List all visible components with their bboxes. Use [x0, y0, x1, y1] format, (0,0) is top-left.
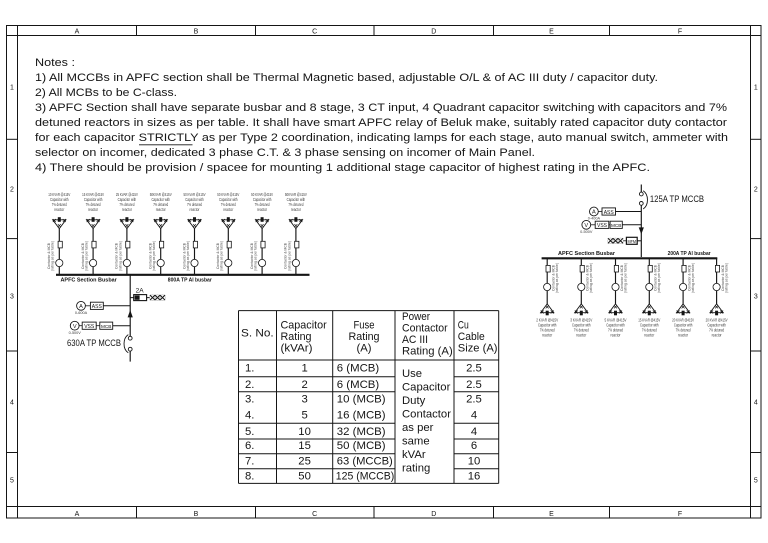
svg-text:3: 3	[754, 294, 758, 301]
svg-text:Rating (A): Rating (A)	[402, 345, 453, 357]
svg-text:10: 10	[468, 455, 481, 467]
svg-text:reactor: reactor	[542, 332, 552, 337]
svg-text:(rating as per table): (rating as per table)	[186, 241, 190, 271]
svg-text:(rating as per table): (rating as per table)	[118, 241, 122, 271]
svg-text:2.5: 2.5	[466, 379, 482, 391]
svg-text:1: 1	[754, 85, 758, 92]
svg-text:D: D	[431, 28, 436, 35]
svg-text:Cable: Cable	[458, 331, 485, 343]
svg-text:V: V	[584, 223, 588, 229]
svg-text:as per: as per	[402, 422, 434, 434]
svg-text:C: C	[312, 511, 317, 518]
svg-text:reactor: reactor	[712, 332, 722, 337]
svg-text:(kVAr): (kVAr)	[281, 343, 313, 355]
svg-text:reactor: reactor	[88, 207, 98, 212]
svg-text:C: C	[312, 28, 317, 35]
svg-text:A: A	[75, 28, 80, 35]
svg-text:(rating as per table): (rating as per table)	[589, 263, 593, 293]
svg-text:Duty: Duty	[402, 395, 426, 407]
svg-text:Contactor: Contactor	[402, 408, 451, 420]
svg-text:2A: 2A	[136, 287, 145, 294]
svg-text:50: 50	[298, 471, 311, 483]
svg-text:(rating as per table): (rating as per table)	[623, 263, 627, 293]
svg-text:1.: 1.	[245, 362, 254, 374]
svg-text:800A TP Al busbar: 800A TP Al busbar	[168, 278, 213, 284]
svg-text:detuned reactors in sizes as p: detuned reactors in sizes as per table. …	[35, 117, 727, 129]
svg-text:2: 2	[301, 379, 307, 391]
svg-text:5: 5	[754, 478, 758, 485]
svg-text:(rating as per table): (rating as per table)	[220, 241, 224, 271]
svg-text:Cu: Cu	[458, 319, 469, 331]
svg-text:(rating as per table): (rating as per table)	[691, 263, 695, 293]
svg-text:reactor: reactor	[678, 332, 688, 337]
svg-text:VSS: VSS	[597, 223, 607, 229]
svg-text:(rating as per table): (rating as per table)	[555, 263, 559, 293]
svg-text:(A): (A)	[357, 343, 372, 355]
svg-text:6 (MCB): 6 (MCB)	[337, 362, 380, 374]
svg-text:Use: Use	[402, 368, 422, 380]
svg-text:reactor: reactor	[611, 332, 621, 337]
svg-text:reactor: reactor	[257, 207, 267, 212]
svg-text:ASS: ASS	[92, 304, 102, 310]
svg-text:E: E	[549, 28, 554, 35]
svg-text:reactor: reactor	[54, 207, 64, 212]
svg-text:2: 2	[10, 187, 14, 194]
svg-text:reactor: reactor	[122, 207, 132, 212]
svg-text:F: F	[678, 28, 682, 35]
svg-text:63 (MCCB): 63 (MCCB)	[337, 455, 393, 467]
svg-text:VSS: VSS	[84, 324, 94, 330]
svg-text:2) All MCBs to be C-class.: 2) All MCBs to be C-class.	[35, 87, 177, 99]
svg-text:reactor: reactor	[223, 207, 233, 212]
svg-text:reactor: reactor	[576, 332, 586, 337]
svg-text:0-400A: 0-400A	[588, 217, 601, 221]
svg-text:4: 4	[471, 410, 477, 422]
svg-text:1: 1	[301, 362, 307, 374]
svg-text:2: 2	[754, 187, 758, 194]
svg-text:16: 16	[468, 471, 481, 483]
svg-text:125A TP MCCB: 125A TP MCCB	[650, 194, 704, 205]
svg-text:same: same	[402, 435, 430, 447]
svg-text:15: 15	[298, 440, 311, 452]
svg-text:6 (MCB): 6 (MCB)	[337, 379, 380, 391]
svg-text:A: A	[75, 511, 80, 518]
svg-text:(rating as per table): (rating as per table)	[725, 263, 729, 293]
svg-text:(rating as per table): (rating as per table)	[254, 241, 258, 271]
svg-text:1: 1	[10, 85, 14, 92]
svg-text:(rating as per table): (rating as per table)	[152, 241, 156, 271]
svg-text:Contactor: Contactor	[402, 323, 448, 335]
svg-text:10: 10	[298, 426, 311, 438]
svg-text:(rating as per table): (rating as per table)	[657, 263, 661, 293]
svg-text:AC III: AC III	[402, 334, 428, 346]
svg-text:5.: 5.	[245, 426, 254, 438]
svg-text:Size (A): Size (A)	[458, 343, 498, 355]
svg-text:3: 3	[10, 294, 14, 301]
svg-text:25: 25	[298, 455, 311, 467]
svg-text:Capacitor: Capacitor	[281, 319, 327, 331]
svg-text:APFC Section Busbar: APFC Section Busbar	[61, 278, 118, 284]
svg-text:reactor: reactor	[291, 207, 301, 212]
svg-text:2.: 2.	[245, 379, 254, 391]
svg-text:for each capacitor STRICTLY as: for each capacitor STRICTLY as per Type …	[35, 132, 728, 144]
svg-text:E: E	[549, 511, 554, 518]
svg-text:5: 5	[10, 478, 14, 485]
svg-text:MCB: MCB	[101, 324, 112, 330]
svg-text:reactor: reactor	[644, 332, 654, 337]
svg-text:Rating: Rating	[349, 331, 380, 343]
svg-text:4) There should be provision /: 4) There should be provision / spacee fo…	[35, 162, 650, 174]
svg-text:(rating as per table): (rating as per table)	[51, 241, 55, 271]
svg-text:10 (MCB): 10 (MCB)	[337, 394, 386, 406]
svg-text:Power: Power	[402, 311, 430, 323]
svg-text:16 (MCB): 16 (MCB)	[337, 410, 386, 422]
svg-text:3: 3	[301, 394, 307, 406]
svg-text:50 (MCB): 50 (MCB)	[337, 440, 386, 452]
svg-text:7.: 7.	[245, 455, 254, 467]
svg-text:B: B	[194, 28, 199, 35]
svg-text:rating: rating	[402, 462, 430, 474]
svg-text:A: A	[79, 304, 83, 310]
svg-text:Capacitor: Capacitor	[402, 381, 451, 393]
svg-text:32 (MCB): 32 (MCB)	[337, 426, 386, 438]
svg-text:0-500V: 0-500V	[580, 230, 593, 234]
svg-text:APFC Section Busbar: APFC Section Busbar	[558, 251, 616, 257]
svg-text:8.: 8.	[245, 471, 254, 483]
svg-text:5: 5	[301, 410, 307, 422]
svg-text:kVAr: kVAr	[402, 449, 426, 461]
svg-text:ASS: ASS	[604, 210, 614, 216]
svg-text:630A TP MCCB: 630A TP MCCB	[67, 338, 121, 349]
svg-text:MFM: MFM	[628, 239, 637, 244]
svg-text:6.: 6.	[245, 440, 254, 452]
svg-text:4.: 4.	[245, 410, 254, 422]
svg-text:3) APFC Section shall have sep: 3) APFC Section shall have separate busb…	[35, 102, 727, 114]
svg-text:S. No.: S. No.	[241, 327, 274, 339]
svg-text:2.5: 2.5	[466, 362, 482, 374]
svg-text:4: 4	[10, 400, 14, 407]
svg-text:4: 4	[471, 426, 477, 438]
svg-text:selector on incomer, dedicated: selector on incomer, dedicated 3 phase C…	[35, 147, 535, 159]
svg-text:(rating as per table): (rating as per table)	[85, 241, 89, 271]
svg-text:reactor: reactor	[156, 207, 166, 212]
svg-text:Rating: Rating	[281, 331, 312, 343]
svg-text:1) All MCCBs in APFC section s: 1) All MCCBs in APFC section shall be Th…	[35, 72, 658, 84]
svg-text:Fuse: Fuse	[354, 319, 375, 331]
svg-text:MCB: MCB	[611, 223, 622, 229]
svg-text:0-600A: 0-600A	[75, 311, 88, 315]
svg-text:200A TP Al busbar: 200A TP Al busbar	[668, 251, 712, 257]
svg-text:A: A	[592, 210, 596, 216]
svg-text:V: V	[73, 324, 77, 330]
svg-text:B: B	[194, 511, 199, 518]
svg-text:D: D	[431, 511, 436, 518]
svg-text:0-500V: 0-500V	[69, 331, 82, 335]
svg-text:(rating as per table): (rating as per table)	[287, 241, 291, 271]
svg-text:2.5: 2.5	[466, 394, 482, 406]
svg-text:reactor: reactor	[190, 207, 200, 212]
svg-text:Notes :: Notes :	[35, 57, 75, 69]
svg-text:125 (MCCB): 125 (MCCB)	[336, 471, 395, 483]
svg-text:6: 6	[471, 440, 477, 452]
svg-text:F: F	[678, 511, 682, 518]
svg-text:4: 4	[754, 400, 758, 407]
svg-text:3.: 3.	[245, 394, 254, 406]
